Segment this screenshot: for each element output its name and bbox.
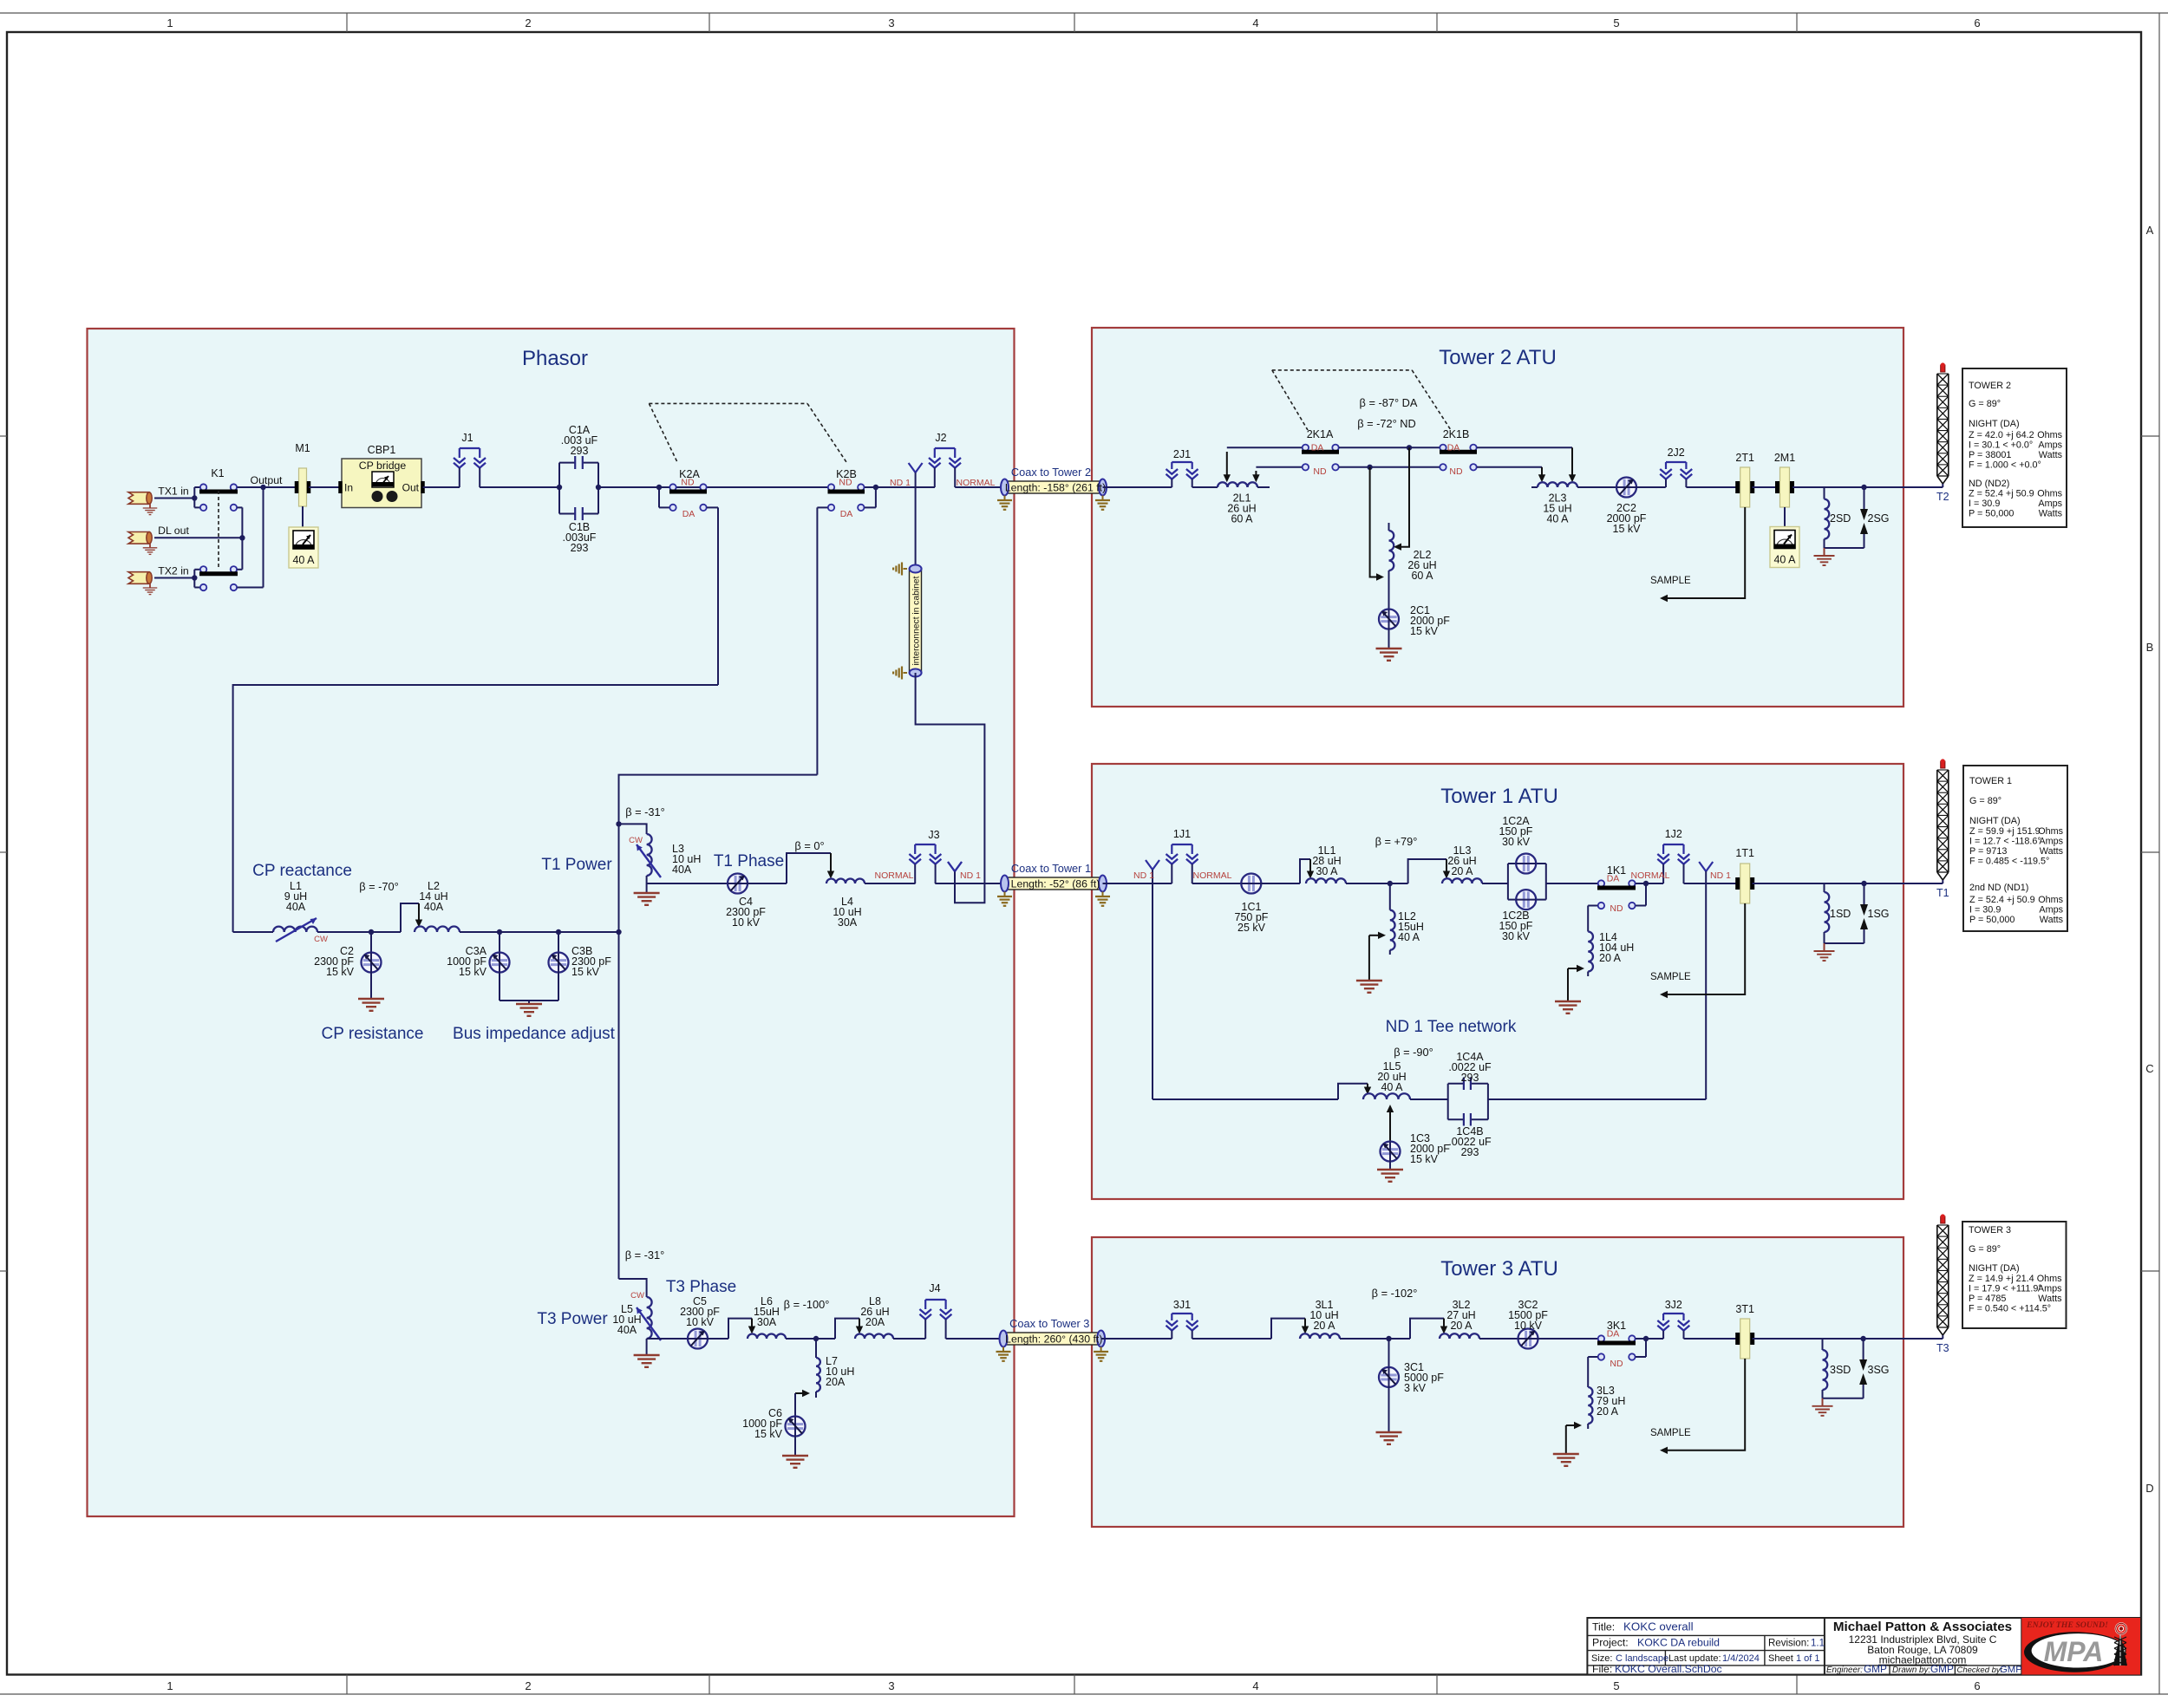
- svg-text:Watts: Watts: [2039, 450, 2063, 460]
- svg-text:Amps: Amps: [2038, 440, 2062, 451]
- svg-text:SAMPLE: SAMPLE: [1650, 972, 1691, 982]
- svg-text:15 kV: 15 kV: [571, 966, 600, 978]
- svg-text:30A: 30A: [757, 1316, 777, 1328]
- svg-text:F = 0.485 < -119.5°: F = 0.485 < -119.5°: [1969, 857, 2049, 867]
- svg-text:β = -31°: β = -31°: [625, 805, 665, 818]
- svg-text:1J1: 1J1: [1173, 828, 1191, 840]
- svg-text:15 kV: 15 kV: [1410, 625, 1439, 637]
- svg-text:40 A: 40 A: [1398, 931, 1420, 943]
- svg-text:Michael Patton & Associates: Michael Patton & Associates: [1833, 1620, 2012, 1634]
- svg-text:40A: 40A: [672, 864, 692, 876]
- svg-text:30 kV: 30 kV: [1502, 930, 1531, 942]
- svg-text:NIGHT (DA): NIGHT (DA): [1969, 1263, 2020, 1274]
- svg-text:Z = 52.4 +j 50.9: Z = 52.4 +j 50.9: [1969, 895, 2035, 905]
- svg-text:K1: K1: [211, 467, 224, 479]
- svg-text:Out: Out: [402, 482, 420, 494]
- svg-text:1: 1: [167, 16, 173, 29]
- svg-text:1SG: 1SG: [1868, 908, 1890, 920]
- svg-text:20 A: 20 A: [1451, 865, 1473, 877]
- svg-text:TOWER 1: TOWER 1: [1969, 776, 2012, 786]
- svg-text:1/4/2024: 1/4/2024: [1722, 1653, 1760, 1664]
- svg-text:293: 293: [1461, 1072, 1479, 1084]
- svg-text:T1 Power: T1 Power: [541, 856, 612, 874]
- svg-text:2SG: 2SG: [1868, 512, 1890, 525]
- svg-text:Drawn by:: Drawn by:: [1892, 1666, 1930, 1675]
- svg-text:4: 4: [1252, 16, 1258, 29]
- svg-text:293: 293: [571, 445, 589, 457]
- svg-text:Revision:: Revision:: [1768, 1639, 1809, 1649]
- svg-text:C: C: [2145, 1062, 2153, 1075]
- svg-text:3J1: 3J1: [1173, 1299, 1191, 1311]
- svg-text:KOKC DA rebuild: KOKC DA rebuild: [1637, 1637, 1720, 1649]
- svg-text:I = 30.1 < +0.0°: I = 30.1 < +0.0°: [1969, 440, 2033, 451]
- svg-text:P = 38001: P = 38001: [1969, 450, 2011, 460]
- svg-text:Z = 42.0 +j 64.2: Z = 42.0 +j 64.2: [1969, 430, 2034, 440]
- svg-text:ND 1: ND 1: [890, 478, 911, 488]
- svg-text:3J2: 3J2: [1665, 1299, 1682, 1311]
- svg-text:15 kV: 15 kV: [754, 1428, 783, 1440]
- svg-text:Ohms: Ohms: [2038, 826, 2063, 837]
- svg-text:6: 6: [1974, 1679, 1980, 1692]
- svg-text:T3 Phase: T3 Phase: [666, 1278, 736, 1296]
- svg-text:Coax to Tower 1: Coax to Tower 1: [1011, 862, 1091, 875]
- svg-text:Ohms: Ohms: [2037, 430, 2062, 440]
- svg-text:1SD: 1SD: [1830, 908, 1851, 920]
- svg-text:T3 Power: T3 Power: [537, 1310, 608, 1328]
- svg-text:β = -102°: β = -102°: [1372, 1287, 1418, 1300]
- svg-text:DA: DA: [840, 509, 853, 519]
- svg-text:CBP1: CBP1: [368, 444, 396, 456]
- svg-text:Amps: Amps: [2039, 905, 2063, 916]
- svg-text:2J1: 2J1: [1173, 448, 1191, 460]
- svg-text:40 A: 40 A: [292, 554, 315, 566]
- svg-text:Project:: Project:: [1592, 1637, 1629, 1649]
- svg-text:NORMAL: NORMAL: [1193, 870, 1232, 881]
- svg-text:NIGHT (DA): NIGHT (DA): [1969, 419, 2020, 429]
- svg-text:Output: Output: [251, 474, 283, 486]
- svg-text:β = -87° DA: β = -87° DA: [1360, 396, 1418, 409]
- svg-text:TOWER 3: TOWER 3: [1969, 1225, 2011, 1235]
- svg-text:Z = 52.4 +j 50.9: Z = 52.4 +j 50.9: [1969, 489, 2034, 499]
- svg-text:D: D: [2145, 1482, 2153, 1495]
- svg-text:30 kV: 30 kV: [1502, 836, 1531, 848]
- svg-text:ENJOY THE SOUND!: ENJOY THE SOUND!: [2026, 1620, 2108, 1630]
- svg-text:Amps: Amps: [2038, 499, 2062, 509]
- svg-text:Engineer:: Engineer:: [1826, 1666, 1863, 1675]
- svg-text:Tower 3 ATU: Tower 3 ATU: [1440, 1257, 1558, 1281]
- svg-text:2K1A: 2K1A: [1307, 428, 1334, 440]
- svg-text:Watts: Watts: [2040, 846, 2064, 857]
- svg-text:Ohms: Ohms: [2037, 1274, 2062, 1284]
- svg-text:1.1: 1.1: [1811, 1639, 1825, 1649]
- svg-text:ND: ND: [1610, 903, 1623, 914]
- svg-text:DA: DA: [1447, 443, 1460, 453]
- svg-text:2: 2: [525, 16, 531, 29]
- svg-text:6: 6: [1974, 16, 1980, 29]
- svg-text:20 A: 20 A: [1313, 1320, 1335, 1332]
- svg-text:15 kV: 15 kV: [459, 966, 487, 978]
- svg-text:I = 30.9: I = 30.9: [1969, 499, 2000, 509]
- svg-text:CW: CW: [629, 836, 643, 845]
- svg-text:I = 12.7 < -118.6°: I = 12.7 < -118.6°: [1969, 837, 2041, 847]
- svg-text:15 kV: 15 kV: [1613, 523, 1642, 535]
- svg-text:P = 50,000: P = 50,000: [1969, 915, 2015, 925]
- svg-text:KOKC overall: KOKC overall: [1623, 1620, 1694, 1633]
- svg-text:J4: J4: [929, 1282, 940, 1294]
- svg-text:CP bridge: CP bridge: [359, 460, 407, 472]
- svg-text:P = 9713: P = 9713: [1969, 846, 2007, 857]
- svg-text:2M1: 2M1: [1774, 452, 1795, 464]
- svg-text:20 A: 20 A: [1597, 1405, 1619, 1418]
- svg-text:5: 5: [1613, 1679, 1619, 1692]
- svg-text:40A: 40A: [286, 901, 306, 913]
- svg-text:Sheet: Sheet: [1768, 1653, 1793, 1664]
- svg-text:Z = 59.9 +j 151.9: Z = 59.9 +j 151.9: [1969, 826, 2041, 837]
- svg-text:CW: CW: [630, 1291, 644, 1301]
- svg-text:40A: 40A: [424, 901, 444, 913]
- svg-text:ND 1 Tee network: ND 1 Tee network: [1386, 1018, 1517, 1036]
- svg-text:DA: DA: [1311, 443, 1324, 453]
- svg-text:3T1: 3T1: [1735, 1303, 1754, 1315]
- svg-text:T2: T2: [1936, 491, 1949, 503]
- svg-text:File:: File:: [1592, 1663, 1612, 1675]
- svg-text:GMP: GMP: [2000, 1665, 2022, 1675]
- svg-text:ND 1: ND 1: [1710, 870, 1731, 881]
- svg-text:15 kV: 15 kV: [1410, 1153, 1439, 1165]
- svg-text:In: In: [344, 482, 353, 494]
- svg-text:DA: DA: [1607, 1329, 1620, 1340]
- svg-text:Phasor: Phasor: [522, 347, 588, 370]
- svg-text:3: 3: [888, 1679, 894, 1692]
- svg-text:CW: CW: [314, 935, 328, 944]
- svg-text:40 A: 40 A: [1773, 554, 1796, 566]
- svg-text:G = 89°: G = 89°: [1969, 1244, 2001, 1255]
- svg-text:β = +79°: β = +79°: [1375, 835, 1418, 848]
- svg-text:Length: -52° (86 ft): Length: -52° (86 ft): [1011, 878, 1100, 890]
- svg-text:293: 293: [571, 542, 589, 554]
- svg-text:P = 4785: P = 4785: [1969, 1294, 2006, 1304]
- svg-text:ND 1: ND 1: [960, 870, 981, 881]
- svg-text:1: 1: [167, 1679, 173, 1692]
- svg-text:ND: ND: [1313, 466, 1327, 477]
- svg-text:J3: J3: [928, 829, 939, 841]
- svg-text:Bus impedance adjust: Bus impedance adjust: [453, 1025, 616, 1043]
- svg-text:CP resistance: CP resistance: [322, 1025, 424, 1043]
- svg-text:ND: ND: [839, 478, 852, 488]
- svg-text:Tower 1 ATU: Tower 1 ATU: [1440, 785, 1558, 808]
- svg-text:A: A: [2146, 224, 2154, 237]
- svg-text:T1: T1: [1936, 887, 1949, 899]
- svg-text:GMP: GMP: [1930, 1663, 1954, 1675]
- svg-text:ND 1: ND 1: [1133, 870, 1154, 881]
- svg-text:25 kV: 25 kV: [1237, 922, 1266, 934]
- svg-text:TOWER 2: TOWER 2: [1969, 381, 2011, 391]
- svg-text:GMP: GMP: [1864, 1663, 1887, 1675]
- svg-text:2: 2: [525, 1679, 531, 1692]
- svg-text:Length: -158° (261 ft): Length: -158° (261 ft): [1005, 482, 1106, 494]
- svg-text:40 A: 40 A: [1381, 1081, 1403, 1093]
- svg-text:60 A: 60 A: [1411, 570, 1433, 582]
- svg-text:NORMAL: NORMAL: [875, 870, 914, 881]
- svg-text:15 kV: 15 kV: [326, 966, 355, 978]
- svg-text:β = -31°: β = -31°: [625, 1248, 665, 1261]
- svg-text:F = 0.540 < +114.5°: F = 0.540 < +114.5°: [1969, 1304, 2051, 1314]
- svg-text:CP reactance: CP reactance: [252, 862, 352, 880]
- svg-text:Tower 2 ATU: Tower 2 ATU: [1439, 346, 1557, 369]
- svg-text:β = -90°: β = -90°: [1394, 1046, 1433, 1059]
- svg-text:Ohms: Ohms: [2037, 489, 2062, 499]
- svg-text:Z = 14.9 +j 21.4: Z = 14.9 +j 21.4: [1969, 1274, 2034, 1284]
- svg-text:J2: J2: [935, 432, 946, 444]
- svg-text:Watts: Watts: [2039, 509, 2063, 519]
- svg-text:Coax to Tower 2: Coax to Tower 2: [1011, 466, 1091, 479]
- svg-text:Title:: Title:: [1592, 1621, 1615, 1633]
- svg-text:10 kV: 10 kV: [1514, 1320, 1543, 1332]
- svg-text:40 A: 40 A: [1546, 513, 1569, 525]
- svg-text:3 kV: 3 kV: [1404, 1382, 1427, 1394]
- svg-text:2SD: 2SD: [1830, 512, 1851, 525]
- svg-text:SAMPLE: SAMPLE: [1650, 576, 1691, 586]
- svg-text:1 of 1: 1 of 1: [1796, 1653, 1820, 1664]
- svg-text:DL out: DL out: [158, 525, 189, 537]
- svg-text:3SG: 3SG: [1868, 1364, 1890, 1376]
- svg-text:Ohms: Ohms: [2038, 895, 2063, 905]
- svg-text:ND: ND: [1449, 466, 1463, 477]
- svg-text:Amps: Amps: [2038, 1284, 2062, 1294]
- svg-text:F = 1.000 < +0.0°: F = 1.000 < +0.0°: [1969, 460, 2041, 471]
- svg-text:KOKC Overall.SchDoc: KOKC Overall.SchDoc: [1615, 1663, 1722, 1675]
- svg-text:MPA: MPA: [2044, 1636, 2104, 1667]
- svg-text:NIGHT (DA): NIGHT (DA): [1969, 816, 2021, 826]
- svg-text:Watts: Watts: [2040, 915, 2064, 925]
- svg-text:20A: 20A: [865, 1316, 885, 1328]
- svg-text:Coax to Tower 3: Coax to Tower 3: [1009, 1317, 1089, 1330]
- svg-text:T3: T3: [1936, 1342, 1949, 1354]
- svg-text:Checked by:: Checked by:: [1957, 1666, 2003, 1675]
- svg-text:ND (ND2): ND (ND2): [1969, 479, 2009, 489]
- svg-text:ND: ND: [681, 478, 695, 488]
- svg-text:β = -100°: β = -100°: [784, 1298, 830, 1311]
- svg-text:10 kV: 10 kV: [732, 916, 761, 929]
- svg-text:P = 50,000: P = 50,000: [1969, 509, 2014, 519]
- svg-text:SAMPLE: SAMPLE: [1650, 1428, 1691, 1438]
- svg-text:2K1B: 2K1B: [1443, 428, 1470, 440]
- svg-text:β = 0°: β = 0°: [794, 839, 824, 852]
- svg-text:M1: M1: [295, 442, 310, 454]
- svg-text:30A: 30A: [838, 916, 858, 929]
- svg-text:10 kV: 10 kV: [686, 1316, 715, 1328]
- svg-text:T1 Phase: T1 Phase: [714, 852, 784, 870]
- svg-text:1T1: 1T1: [1735, 847, 1754, 859]
- svg-text:60 A: 60 A: [1231, 513, 1253, 525]
- svg-text:2T1: 2T1: [1735, 452, 1754, 464]
- svg-text:20A: 20A: [826, 1376, 846, 1388]
- svg-text:5: 5: [1613, 16, 1619, 29]
- svg-text:G = 89°: G = 89°: [1969, 796, 2001, 806]
- svg-text:TX1 in: TX1 in: [158, 486, 189, 498]
- svg-text:Length: 260° (430 ft): Length: 260° (430 ft): [1005, 1333, 1102, 1346]
- svg-text:β = -72° ND: β = -72° ND: [1357, 417, 1416, 430]
- svg-text:J1: J1: [461, 432, 473, 444]
- svg-text:I = 30.9: I = 30.9: [1969, 905, 2001, 916]
- svg-text:2J2: 2J2: [1668, 447, 1685, 459]
- svg-text:DA: DA: [682, 509, 695, 519]
- svg-text:293: 293: [1461, 1146, 1479, 1158]
- svg-text:1J2: 1J2: [1665, 828, 1682, 840]
- svg-text:40A: 40A: [617, 1324, 637, 1336]
- svg-text:Watts: Watts: [2038, 1294, 2062, 1304]
- svg-text:TX2 in: TX2 in: [158, 565, 189, 577]
- svg-text:3SD: 3SD: [1830, 1364, 1851, 1376]
- svg-text:2nd ND (ND1): 2nd ND (ND1): [1969, 883, 2028, 893]
- svg-text:interconnect in cabinet: interconnect in cabinet: [912, 576, 922, 665]
- svg-text:DA: DA: [1607, 874, 1620, 884]
- svg-text:20 A: 20 A: [1450, 1320, 1473, 1332]
- svg-text:ND: ND: [1610, 1359, 1623, 1369]
- svg-text:B: B: [2146, 641, 2154, 654]
- svg-text:3: 3: [888, 16, 894, 29]
- svg-text:NORMAL: NORMAL: [1631, 870, 1670, 881]
- svg-text:G = 89°: G = 89°: [1969, 399, 2001, 409]
- svg-text:β = -70°: β = -70°: [359, 880, 399, 893]
- svg-text:I = 17.9 < +111.9°: I = 17.9 < +111.9°: [1969, 1284, 2042, 1294]
- svg-text:20 A: 20 A: [1599, 952, 1622, 964]
- svg-text:Amps: Amps: [2039, 837, 2063, 847]
- svg-text:30 A: 30 A: [1316, 865, 1338, 877]
- svg-text:4: 4: [1252, 1679, 1258, 1692]
